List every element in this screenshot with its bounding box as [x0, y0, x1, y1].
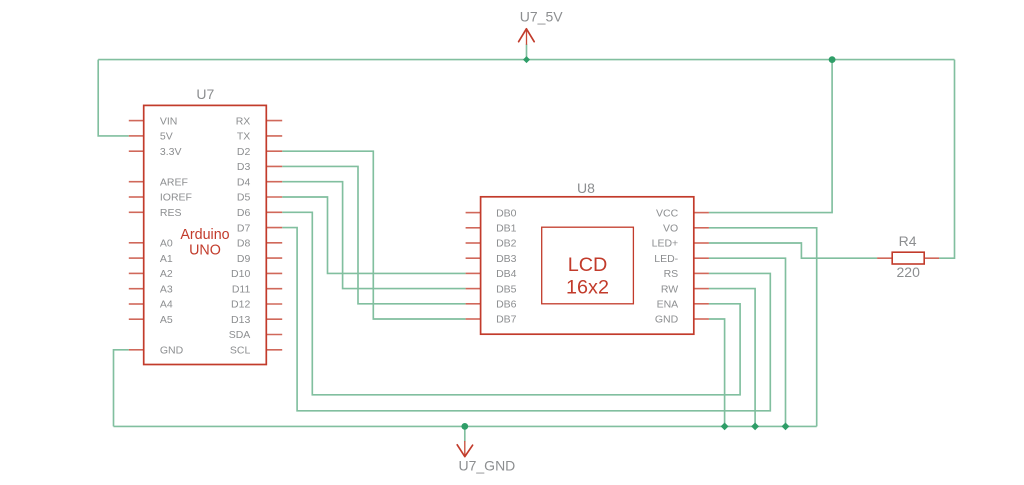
svg-text:GND: GND — [655, 314, 679, 326]
svg-text:D9: D9 — [237, 253, 251, 265]
svg-text:DB2: DB2 — [496, 238, 517, 250]
svg-text:DB4: DB4 — [496, 268, 517, 280]
svg-text:SDA: SDA — [229, 329, 251, 341]
svg-text:LCD: LCD — [568, 254, 608, 276]
svg-text:D8: D8 — [237, 238, 251, 250]
svg-text:GND: GND — [160, 345, 184, 357]
svg-text:DB0: DB0 — [496, 207, 517, 219]
svg-text:IOREF: IOREF — [160, 192, 192, 204]
svg-text:D11: D11 — [232, 283, 251, 295]
svg-text:RW: RW — [661, 283, 678, 295]
svg-text:TX: TX — [237, 131, 250, 143]
svg-text:RX: RX — [236, 115, 251, 127]
svg-text:3.3V: 3.3V — [160, 146, 182, 158]
svg-text:DB1: DB1 — [496, 223, 517, 235]
svg-text:A3: A3 — [160, 283, 173, 295]
svg-text:A5: A5 — [160, 314, 173, 326]
svg-text:D7: D7 — [237, 222, 251, 234]
svg-text:A0: A0 — [160, 238, 173, 250]
svg-text:U8: U8 — [577, 180, 595, 196]
svg-text:Arduino: Arduino — [180, 227, 229, 243]
svg-text:ENA: ENA — [657, 299, 679, 311]
svg-text:U7_5V: U7_5V — [520, 8, 563, 24]
svg-text:DB6: DB6 — [496, 299, 517, 311]
svg-text:LED-: LED- — [654, 253, 678, 265]
svg-text:A4: A4 — [160, 299, 173, 311]
svg-text:D2: D2 — [237, 146, 251, 158]
svg-text:A2: A2 — [160, 268, 173, 280]
svg-text:DB3: DB3 — [496, 253, 517, 265]
svg-text:LED+: LED+ — [652, 238, 679, 250]
svg-text:U7: U7 — [196, 86, 214, 102]
svg-text:16x2: 16x2 — [566, 277, 609, 299]
svg-text:D4: D4 — [237, 176, 251, 188]
svg-text:D13: D13 — [231, 314, 250, 326]
svg-text:D5: D5 — [237, 192, 251, 204]
svg-text:AREF: AREF — [160, 176, 188, 188]
svg-text:RS: RS — [664, 268, 679, 280]
svg-text:220: 220 — [897, 264, 921, 280]
svg-text:D6: D6 — [237, 207, 251, 219]
svg-text:U7_GND: U7_GND — [459, 458, 516, 474]
svg-text:VO: VO — [663, 223, 678, 235]
svg-text:D12: D12 — [231, 299, 250, 311]
svg-text:UNO: UNO — [189, 242, 221, 258]
svg-text:DB7: DB7 — [496, 314, 517, 326]
svg-text:VCC: VCC — [656, 207, 679, 219]
svg-text:D10: D10 — [231, 268, 250, 280]
svg-text:RES: RES — [160, 207, 182, 219]
svg-text:A1: A1 — [160, 253, 173, 265]
svg-text:R4: R4 — [899, 233, 917, 249]
svg-text:VIN: VIN — [160, 115, 178, 127]
svg-text:D3: D3 — [237, 161, 251, 173]
svg-text:SCL: SCL — [230, 345, 251, 357]
svg-text:DB5: DB5 — [496, 283, 517, 295]
svg-text:5V: 5V — [160, 131, 173, 143]
